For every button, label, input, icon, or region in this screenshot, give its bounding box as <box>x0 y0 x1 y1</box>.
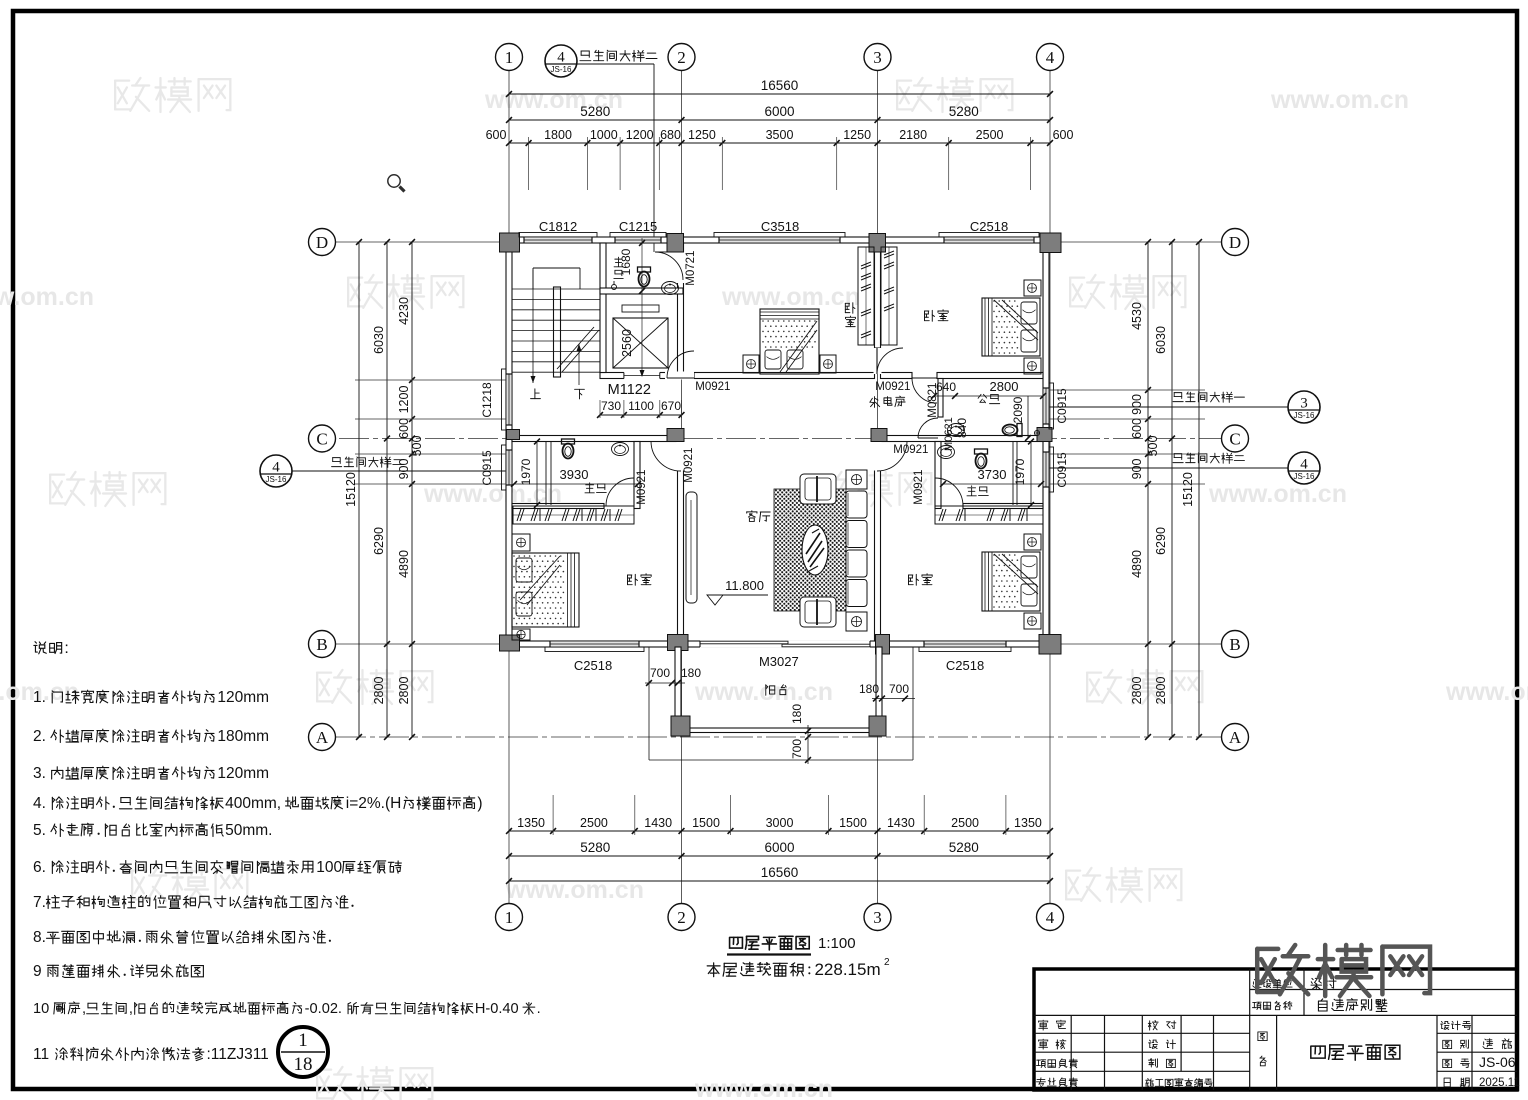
svg-text:C0915: C0915 <box>480 450 494 486</box>
dimension top witness lines <box>528 137 530 190</box>
bed bottom-right bedroom <box>982 552 1040 611</box>
svg-text:180: 180 <box>790 704 804 724</box>
room label balcony <box>766 685 786 696</box>
coffee table <box>802 525 828 575</box>
grid bubble D left <box>309 229 336 256</box>
svg-text:): ) <box>477 795 482 812</box>
svg-text:8.: 8. <box>33 929 46 946</box>
svg-text:A: A <box>1229 728 1242 747</box>
balcony front wall <box>675 728 882 733</box>
balcony dim left 700 180 <box>645 682 685 684</box>
svg-text:4: 4 <box>1046 48 1055 67</box>
sliding door M3027 bottom wall <box>700 640 870 647</box>
svg-text:700: 700 <box>889 682 909 696</box>
grid bubble 4 top <box>1037 44 1064 71</box>
sink left master bath <box>612 443 629 456</box>
interior wall grid2 upper <box>678 243 684 378</box>
svg-text:11: 11 <box>33 1046 49 1063</box>
svg-text:.: . <box>537 1001 541 1017</box>
grid line B horizontal <box>336 643 1221 645</box>
svg-text:6290: 6290 <box>1154 527 1168 555</box>
title block project labels <box>1253 979 1292 988</box>
sofa armchair bottom <box>800 597 836 627</box>
sofa armchair top <box>800 474 836 504</box>
dim 640 public bath <box>936 380 956 394</box>
grid bubble D right <box>1222 229 1249 256</box>
svg-text:15120: 15120 <box>1181 472 1195 507</box>
bed middle-top bedroom <box>760 309 819 374</box>
svg-text:15120: 15120 <box>344 472 358 507</box>
title block vertical lines <box>1070 1015 1072 1090</box>
door M0921 left master bath <box>606 478 634 506</box>
svg-text:2025.11: 2025.11 <box>1479 1077 1520 1089</box>
wardrobe bottom-right bedroom <box>935 506 1043 524</box>
grid line D horizontal <box>336 241 1221 243</box>
grid line C horizontal <box>339 438 1221 440</box>
notes title <box>34 640 69 657</box>
elevator vent <box>622 305 659 312</box>
dimension right witness lines <box>1049 389 1205 391</box>
door gap elevator M1122 <box>624 372 660 380</box>
window C1215 top wall <box>615 236 661 243</box>
dimension left inner chain <box>411 242 413 737</box>
svg-text:2500: 2500 <box>951 816 979 830</box>
dimension left witness lines <box>355 379 506 381</box>
sofa side table bottom <box>846 612 867 631</box>
grid bubble 4 bottom <box>1037 904 1064 931</box>
door gap grid3 upper <box>874 348 882 374</box>
svg-text:600: 600 <box>1130 418 1144 439</box>
window C1218 left wall <box>505 374 512 425</box>
svg-text:2.: 2. <box>33 728 46 745</box>
bath partition right bath left wall <box>935 442 941 509</box>
exterior wall left <box>506 237 512 647</box>
svg-text:A: A <box>316 728 329 747</box>
nightstand middle-top right <box>820 355 836 373</box>
room label public bath <box>978 394 1000 403</box>
sink top bathroom <box>662 282 679 295</box>
svg-text:C: C <box>316 429 327 448</box>
svg-text:D: D <box>316 233 328 252</box>
note 7 <box>33 894 354 911</box>
svg-text:H-0.40: H-0.40 <box>475 1001 519 1017</box>
balcony dim bottom 180 700 <box>807 725 809 764</box>
svg-text:2800: 2800 <box>1130 677 1144 705</box>
svg-text:2: 2 <box>677 48 686 67</box>
svg-text:M0921: M0921 <box>695 381 730 393</box>
svg-text:www.om.cn: www.om.cn <box>1208 480 1347 508</box>
dimension bottom total 16560 <box>509 880 1050 882</box>
svg-text:C1812: C1812 <box>539 219 577 234</box>
grid bubble 2 bottom <box>668 904 695 931</box>
sink public bath <box>948 424 965 437</box>
svg-text:600: 600 <box>397 418 411 439</box>
svg-text:1: 1 <box>298 1030 308 1051</box>
svg-text:1430: 1430 <box>644 816 672 830</box>
svg-text:3000: 3000 <box>766 816 794 830</box>
svg-text:6290: 6290 <box>372 527 386 555</box>
sofa long section <box>846 491 867 518</box>
detail marker 4 right (bathroom detail 2) <box>1288 452 1320 484</box>
column C3 <box>871 429 887 442</box>
elevator shaft left wall / bath left wall <box>600 243 606 373</box>
window C1812 top wall <box>524 236 592 243</box>
svg-text:M0921: M0921 <box>636 470 648 505</box>
svg-text:1500: 1500 <box>692 816 720 830</box>
svg-text:6000: 6000 <box>764 104 794 119</box>
utility/public-bath partition <box>938 379 943 418</box>
interior wall grid2 lower <box>678 439 684 642</box>
svg-text:1350: 1350 <box>517 816 545 830</box>
site logo watermark dark <box>1257 945 1430 996</box>
shower right master bath partition <box>1012 442 1014 506</box>
svg-text:3730: 3730 <box>978 467 1007 482</box>
balcony dim right 180 700 <box>872 698 915 700</box>
balcony side wall left <box>675 647 681 728</box>
column D1 <box>500 233 520 252</box>
dimension left outer 15120 <box>358 242 360 737</box>
svg-text:JS-16: JS-16 <box>1294 472 1315 481</box>
tv cabinet panel <box>686 492 697 603</box>
note 2 <box>33 728 269 745</box>
svg-text:11.800: 11.800 <box>725 578 764 593</box>
interior wall grid3 lower <box>875 439 881 642</box>
svg-text:M0721: M0721 <box>685 251 697 286</box>
grid line 3 vertical <box>877 71 879 903</box>
window C0915 right wall lower <box>1042 452 1049 487</box>
nightstand top-right lower <box>1024 358 1041 374</box>
floor drain public bath <box>1034 430 1039 435</box>
label master bath right <box>967 486 988 496</box>
svg-text:www.om.cn: www.om.cn <box>1445 678 1528 706</box>
svg-text:www.om.cn: www.om.cn <box>1270 86 1409 114</box>
bed top-right bedroom <box>982 298 1040 356</box>
svg-text::: : <box>64 640 68 657</box>
plan area note <box>707 960 880 979</box>
dim 1970 left bath <box>519 458 533 485</box>
svg-text:600: 600 <box>486 128 507 142</box>
svg-text:M0921: M0921 <box>893 444 928 456</box>
svg-text:5280: 5280 <box>949 840 979 855</box>
svg-text:4: 4 <box>1300 457 1308 473</box>
svg-text:1200: 1200 <box>397 386 411 414</box>
column B4 <box>1039 635 1061 655</box>
svg-text:228.15m: 228.15m <box>814 960 880 979</box>
balcony column left <box>671 716 690 736</box>
stair rail <box>554 287 561 377</box>
dimension right outer 15120 <box>1198 242 1200 737</box>
title block horizontal lines <box>1034 1014 1517 1016</box>
grid bubble B left <box>309 631 336 658</box>
level marker 11.800 <box>707 595 723 605</box>
svg-text:1970: 1970 <box>519 458 533 485</box>
dimension bottom 5280 6000 5280 <box>509 855 1050 857</box>
exterior wall right <box>1043 237 1049 647</box>
svg-text:16560: 16560 <box>761 865 799 880</box>
elevator door label M1122 <box>608 382 651 398</box>
note 3 <box>33 765 269 782</box>
svg-text:JS-16: JS-16 <box>266 475 287 484</box>
svg-text:2: 2 <box>677 908 686 927</box>
svg-text:2560: 2560 <box>620 329 634 357</box>
door M0921 bottom left bedroom <box>651 442 681 472</box>
dim 1680 top bathroom <box>619 248 633 275</box>
svg-text:1250: 1250 <box>688 128 716 142</box>
column C1 <box>507 430 520 440</box>
svg-text:730: 730 <box>601 399 621 413</box>
balcony column right <box>869 716 886 736</box>
svg-text:i=2%.(H: i=2%.(H <box>346 795 402 812</box>
grid bubble B right <box>1222 631 1249 658</box>
svg-text:500: 500 <box>410 436 424 457</box>
grid bubble 2 top <box>668 44 695 71</box>
svg-text:5.: 5. <box>33 822 46 839</box>
svg-text:M0921: M0921 <box>875 381 910 393</box>
svg-text:C0915: C0915 <box>1055 388 1069 424</box>
svg-text:1250: 1250 <box>843 128 871 142</box>
svg-text:C1215: C1215 <box>619 219 657 234</box>
svg-text:640: 640 <box>936 380 956 394</box>
title block outer frame <box>1034 969 1517 1090</box>
grid bubble 3 bottom <box>864 904 891 931</box>
detail marker 3 right (bathroom detail 1) <box>1288 391 1320 423</box>
svg-text:C0915: C0915 <box>1055 452 1069 488</box>
svg-text:JS-06: JS-06 <box>1479 1054 1516 1070</box>
svg-text:4: 4 <box>1046 908 1055 927</box>
exterior wall bottom (row B) <box>506 641 1049 647</box>
stair label up <box>531 389 541 399</box>
nightstand bottom-right lower <box>1024 613 1041 629</box>
detail marker 4 top (bathroom detail 2) <box>545 45 577 77</box>
note 4 <box>33 795 483 812</box>
grid bubble 1 bottom <box>496 904 523 931</box>
svg-text:-0.02.: -0.02. <box>305 1001 342 1017</box>
dim 3930 left bath <box>560 467 589 482</box>
dimension top detail row <box>509 142 1050 144</box>
door gap corridor to middle bedroom <box>665 372 694 380</box>
nightstand middle-top left <box>743 355 759 373</box>
svg-text:3: 3 <box>873 908 882 927</box>
svg-text:1: 1 <box>505 48 514 67</box>
svg-text:5280: 5280 <box>580 104 610 119</box>
door gap grid3 lower <box>874 442 882 471</box>
svg-text:840: 840 <box>955 418 969 438</box>
door gap grid2 lower <box>677 442 685 471</box>
svg-text:C1218: C1218 <box>480 382 494 418</box>
detail marker 4 left (bathroom detail 2) <box>260 455 292 487</box>
column B1 <box>500 635 520 651</box>
grid bubble A left <box>309 724 336 751</box>
svg-text:2090: 2090 <box>1011 396 1025 423</box>
door M0721 top bathroom <box>655 252 683 280</box>
grid bubble A right <box>1222 724 1249 751</box>
column D3 <box>869 234 886 253</box>
svg-text:1430: 1430 <box>887 816 915 830</box>
svg-text:4230: 4230 <box>397 297 411 325</box>
title block right labels <box>1441 1021 1471 1030</box>
balcony side wall right <box>876 647 882 728</box>
svg-text:3500: 3500 <box>766 128 794 142</box>
dim 2800 public bath <box>990 379 1019 394</box>
svg-text:2: 2 <box>884 957 890 968</box>
svg-text:10: 10 <box>33 1001 49 1017</box>
svg-text:JS-16: JS-16 <box>551 65 572 74</box>
svg-text:1000: 1000 <box>590 128 618 142</box>
title block drawing-name column <box>1258 1032 1267 1041</box>
svg-text:400mm,: 400mm, <box>225 795 281 812</box>
room label bedroom top-right <box>924 310 948 322</box>
note 11 <box>33 1046 269 1063</box>
svg-text:www.om.cn: www.om.cn <box>0 283 94 311</box>
svg-text:1:100: 1:100 <box>818 935 856 952</box>
detail reference circle 1/18 <box>278 1027 328 1077</box>
svg-text:1350: 1350 <box>1014 816 1042 830</box>
svg-text:3: 3 <box>1300 396 1308 412</box>
note 10 <box>33 1001 541 1017</box>
column B3 <box>876 635 890 655</box>
window C3518 top wall <box>719 236 840 243</box>
door M0921 right master bath <box>935 478 963 506</box>
svg-text:50mm.: 50mm. <box>225 822 272 839</box>
grid bubble C left <box>309 425 336 452</box>
toilet top bathroom <box>638 267 651 287</box>
magnifier icon <box>388 175 400 187</box>
note 9 <box>33 963 203 980</box>
elevator dim 2560 <box>620 329 634 357</box>
svg-text:1200: 1200 <box>626 128 654 142</box>
note 8 <box>33 929 331 946</box>
svg-text:6.: 6. <box>33 859 46 876</box>
window C2518 bottom wall right <box>924 640 1006 647</box>
svg-text:2800: 2800 <box>372 677 386 705</box>
svg-text:,: , <box>82 1001 86 1017</box>
svg-text:7.: 7. <box>33 894 46 911</box>
svg-text:M1122: M1122 <box>608 382 651 398</box>
dim 1970 right bath <box>1013 458 1027 485</box>
grid line 4 vertical <box>1049 71 1051 903</box>
dimension right mid chain <box>1171 242 1173 737</box>
svg-text:6030: 6030 <box>1154 326 1168 354</box>
toilet left master bath <box>562 439 575 459</box>
note 1 <box>33 689 269 706</box>
balcony outer rail <box>648 647 650 760</box>
column D4 <box>1040 233 1061 253</box>
interior wall row C segments <box>512 436 678 442</box>
svg-text:600: 600 <box>1053 128 1074 142</box>
room label bedroom bottom-left <box>627 574 651 586</box>
window C0915 left wall <box>505 450 512 485</box>
svg-text:2800: 2800 <box>990 379 1019 394</box>
bath partition left bath right wall <box>634 442 640 509</box>
svg-text:C2518: C2518 <box>946 658 984 673</box>
column C2 <box>667 429 684 442</box>
svg-text:1970: 1970 <box>1013 458 1027 485</box>
svg-text:9: 9 <box>33 963 42 980</box>
interior wall corridor (upper rooms south wall) <box>600 373 683 379</box>
svg-text:www.om.cn: www.om.cn <box>721 283 860 311</box>
dim 840 public bath <box>955 418 969 438</box>
wardrobe top-right bedroom <box>881 247 897 345</box>
svg-text:900: 900 <box>1130 459 1144 480</box>
dimension top total 16560 <box>509 93 1050 95</box>
nightstand top-right upper <box>1024 280 1041 296</box>
exterior wall top <box>506 237 1049 243</box>
svg-text:B: B <box>1229 635 1240 654</box>
svg-text:C3518: C3518 <box>761 219 799 234</box>
svg-text:www.om.cn: www.om.cn <box>694 678 833 706</box>
svg-text:5280: 5280 <box>949 104 979 119</box>
door gap grid2 upper <box>677 252 685 283</box>
bed bottom-left bedroom <box>512 553 579 627</box>
svg-text:670: 670 <box>661 399 681 413</box>
column D2 <box>667 234 684 253</box>
title block staff labels <box>1039 1020 1066 1030</box>
svg-text:4.: 4. <box>33 795 46 812</box>
svg-text:900: 900 <box>397 459 411 480</box>
window C2518 top wall <box>944 236 1034 243</box>
svg-text:B: B <box>316 635 327 654</box>
svg-text:680: 680 <box>660 128 681 142</box>
dimension right inner chain <box>1147 242 1149 737</box>
shower head top bathroom <box>612 285 617 290</box>
svg-text:1500: 1500 <box>839 816 867 830</box>
svg-text:6000: 6000 <box>764 840 794 855</box>
svg-text:2500: 2500 <box>580 816 608 830</box>
sofa side table top <box>846 470 867 489</box>
svg-text:2500: 2500 <box>976 128 1004 142</box>
toilet public bath <box>1003 424 1023 437</box>
door M0921 bottom right bedroom <box>877 442 907 472</box>
wardrobe middle-top bedroom <box>858 247 874 345</box>
dim 3730 right bath <box>978 467 1007 482</box>
dimension bottom detail row <box>509 830 1050 832</box>
plan title <box>730 936 810 950</box>
label master bath left <box>585 483 606 493</box>
room label living room <box>747 511 770 522</box>
bath bottom wall left (with door opening) <box>512 504 604 509</box>
svg-text:1800: 1800 <box>544 128 572 142</box>
stair down arrow <box>578 344 580 385</box>
column C4 <box>1037 428 1052 442</box>
room label bedroom middle-top <box>845 303 855 314</box>
door M0621 public bath <box>918 418 938 438</box>
dim 2090 public bath <box>1011 396 1025 423</box>
stair label down <box>575 389 585 399</box>
label master bath top <box>614 257 623 267</box>
svg-text:6030: 6030 <box>372 326 386 354</box>
shower left master bath partition <box>545 442 547 506</box>
door M0921 top right bedroom (in grid3 wall) <box>877 348 903 374</box>
svg-text:C2518: C2518 <box>970 219 1008 234</box>
wardrobe bottom-left bedroom <box>513 506 634 524</box>
stair treads <box>512 288 600 290</box>
window C2518 bottom wall left <box>550 640 639 647</box>
svg-text:2800: 2800 <box>397 677 411 705</box>
svg-text:3: 3 <box>873 48 882 67</box>
svg-text:700: 700 <box>650 666 670 680</box>
svg-text:3.: 3. <box>33 765 46 782</box>
room label bedroom bottom-right <box>908 574 932 586</box>
dimension left mid chain <box>386 242 388 737</box>
svg-text:www.om.cn: www.om.cn <box>694 1075 833 1100</box>
door M0821 utility room <box>912 378 937 403</box>
dimension bottom witness lines <box>552 795 554 835</box>
svg-text:4: 4 <box>272 460 280 476</box>
svg-text::11ZJ311: :11ZJ311 <box>206 1046 268 1063</box>
svg-text:C2518: C2518 <box>574 658 612 673</box>
svg-text:,: , <box>129 1001 133 1017</box>
svg-text:180mm: 180mm <box>217 728 269 745</box>
